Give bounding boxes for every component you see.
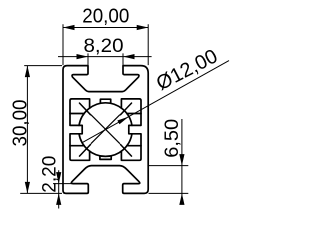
pocket division edges: [70, 114, 141, 146]
profile outline: [63, 66, 148, 194]
arrowheads 8,20 (outside): [77, 54, 135, 59]
svg-text:6,50: 6,50: [162, 119, 183, 158]
svg-text:2,20: 2,20: [40, 156, 61, 193]
center cavity right wall with pockets and rib: [121, 99, 141, 160]
top keyway notch: [100, 99, 110, 103]
leader line for diameter: [82, 61, 229, 143]
arrowheads 2,20 (outside): [56, 172, 61, 205]
dimension 2,20 lines: [53, 170, 72, 208]
arrowheads 30,00: [25, 66, 30, 194]
svg-text:30,00: 30,00: [10, 100, 32, 147]
center bore circle lower arc: [79, 134, 132, 157]
dimension 6,50 lines: [149, 119, 189, 202]
dimension 8,20 lines: [58, 53, 152, 65]
center bore circle upper arc: [79, 103, 132, 126]
corner webs: [80, 103, 132, 156]
center cavity left wall with pockets and rib: [70, 99, 90, 160]
dimension 30,00 lines: [20, 66, 62, 194]
arrowheads 6,50 (outside): [179, 154, 184, 205]
svg-text:8,20: 8,20: [84, 36, 124, 57]
arrowhead diameter leader: [117, 117, 129, 125]
svg-text:20,00: 20,00: [82, 5, 129, 27]
center mark X: [91, 115, 120, 144]
bottom keyway notch: [100, 156, 111, 160]
arrowheads 20,00: [63, 25, 148, 30]
dimension 20,00 lines: [63, 24, 148, 65]
